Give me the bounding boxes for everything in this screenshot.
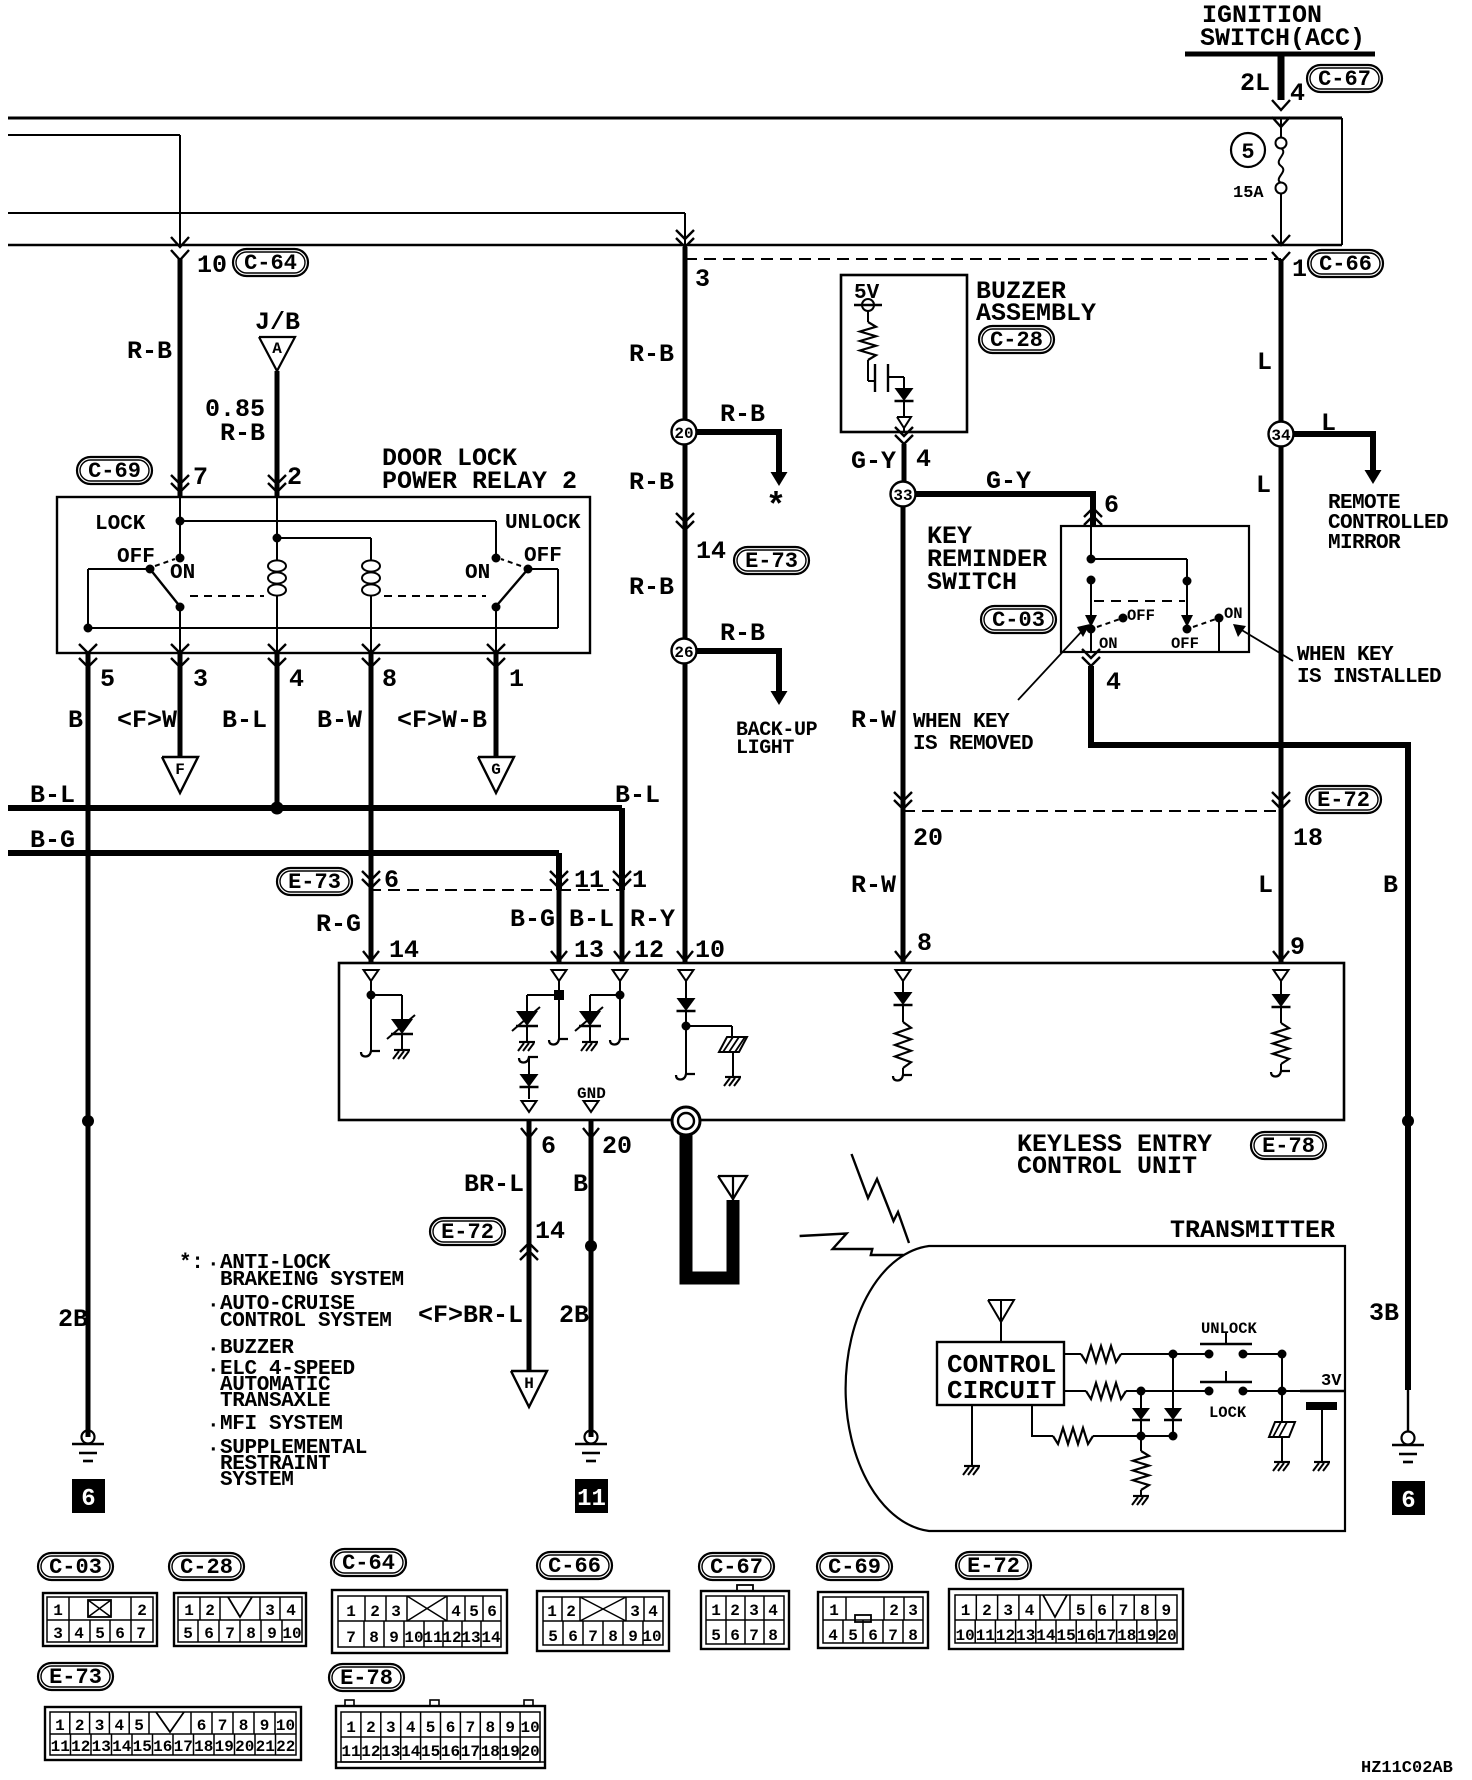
svg-text:4: 4 (286, 1602, 296, 1620)
svg-text:·: · (207, 1439, 219, 1462)
svg-text:1: 1 (346, 1719, 356, 1737)
buzzer 5V supply (854, 282, 882, 322)
connector E-72 capsule (right) (1306, 786, 1381, 813)
harness dashed line E-72 (903, 810, 1281, 812)
svg-text:B-L: B-L (615, 781, 660, 810)
svg-text:CONTROL UNIT: CONTROL UNIT (1017, 1152, 1197, 1181)
svg-text:7: 7 (466, 1719, 476, 1737)
TRANSMITTER label (1170, 1216, 1335, 1245)
svg-text:8: 8 (768, 1627, 778, 1645)
svg-text:33: 33 (893, 487, 912, 505)
wire R-W node 33 to E-72 pin 20 (851, 506, 903, 811)
J/B triangle A (255, 308, 300, 371)
svg-text:L: L (1258, 871, 1273, 900)
svg-text:L: L (1256, 471, 1271, 500)
drawing number HZ11C02AB (1361, 1759, 1453, 1778)
svg-text:5: 5 (1241, 140, 1254, 165)
connector C-67 capsule (1307, 65, 1382, 92)
svg-text:E-72: E-72 (1317, 788, 1370, 813)
svg-text:ON: ON (1099, 635, 1118, 653)
junction node 26 (672, 639, 697, 664)
svg-text:1: 1 (1292, 255, 1307, 284)
E-72 pin 18 arrow (1272, 792, 1323, 853)
svg-text:3: 3 (695, 265, 710, 294)
svg-text:OFF: OFF (1127, 607, 1155, 625)
svg-text:2: 2 (566, 1603, 576, 1621)
wire B-G to control unit pin 13 (510, 890, 567, 963)
buzzer resistor (860, 322, 876, 360)
svg-text:IS REMOVED: IS REMOVED (913, 733, 1033, 756)
svg-text:9: 9 (1161, 1602, 1171, 1620)
svg-text:CONTROL SYSTEM: CONTROL SYSTEM (220, 1310, 392, 1333)
svg-text:14: 14 (389, 936, 419, 965)
svg-text:R-B: R-B (720, 400, 765, 429)
svg-text:5: 5 (548, 1628, 558, 1646)
svg-text:10: 10 (276, 1717, 295, 1735)
svg-text:15: 15 (1056, 1627, 1075, 1645)
svg-text:8: 8 (1140, 1602, 1150, 1620)
wire R-W to control unit pin 8 (851, 811, 911, 963)
svg-text:5: 5 (469, 1603, 479, 1621)
wire R-G to control unit pin 14 (316, 890, 379, 963)
svg-text:20: 20 (235, 1738, 254, 1756)
J/B junction block bus line (top) (8, 117, 1342, 120)
wire R-B from C-64 to relay pin 7 (127, 258, 189, 497)
buzzer assembly box (841, 275, 967, 432)
svg-text:6: 6 (81, 1486, 95, 1513)
svg-text:6: 6 (868, 1627, 878, 1645)
R-B label below E-73 (629, 468, 674, 602)
door lock power relay 2 title (382, 444, 577, 496)
antenna feed connector on control unit (672, 1107, 700, 1135)
svg-text:11: 11 (577, 1486, 606, 1513)
svg-text:F: F (175, 761, 185, 779)
svg-text:B: B (68, 706, 83, 735)
svg-text:4: 4 (648, 1603, 658, 1621)
svg-text:5: 5 (426, 1719, 436, 1737)
svg-text:IS INSTALLED: IS INSTALLED (1297, 666, 1441, 689)
svg-text:1: 1 (829, 1602, 839, 1620)
svg-text:12: 12 (71, 1738, 90, 1756)
ground G6 right (1392, 1432, 1424, 1463)
svg-text:3: 3 (95, 1717, 105, 1735)
connector C-66 pin 1 label (1292, 250, 1383, 284)
wire B from pin 20 (559, 1120, 597, 1437)
svg-text:18: 18 (1117, 1627, 1136, 1645)
svg-text:C-28: C-28 (180, 1555, 233, 1580)
svg-text:R-B: R-B (720, 619, 765, 648)
svg-text:1: 1 (632, 866, 647, 895)
ground triangle G (478, 757, 514, 793)
svg-text:9: 9 (505, 1719, 515, 1737)
E-73 pin 6 arrow (362, 866, 399, 895)
svg-text:22: 22 (276, 1738, 295, 1756)
svg-text:6: 6 (730, 1627, 740, 1645)
door lock power relay 2 box (57, 497, 590, 653)
svg-text:1: 1 (961, 1602, 971, 1620)
svg-text:*: * (766, 489, 786, 527)
svg-text:8: 8 (608, 1628, 618, 1646)
svg-text:E-78: E-78 (340, 1666, 393, 1691)
svg-text:2B: 2B (58, 1305, 88, 1334)
svg-text:14: 14 (112, 1738, 132, 1756)
svg-text:4: 4 (1290, 79, 1305, 108)
svg-text:R-B: R-B (629, 573, 674, 602)
svg-text:R-G: R-G (316, 910, 361, 939)
svg-text:H: H (524, 1375, 534, 1393)
connector C-67 pinout (699, 1553, 789, 1649)
svg-text:2: 2 (137, 1602, 147, 1620)
relay mechanical link dashed (unlock) (384, 595, 486, 597)
connector C-64 pinout (331, 1549, 507, 1653)
svg-text:B-L: B-L (569, 905, 614, 934)
svg-text:R-B: R-B (220, 419, 265, 448)
svg-text:3V: 3V (1321, 1372, 1342, 1391)
svg-text:OFF: OFF (1171, 635, 1199, 653)
svg-text:·: · (207, 1339, 219, 1362)
svg-text:12: 12 (442, 1629, 461, 1647)
control unit pin 14 internal zener circuit (361, 970, 415, 1059)
relay internal wire pin7 to contacts (176, 497, 497, 558)
svg-text:10: 10 (520, 1719, 539, 1737)
svg-text:14: 14 (481, 1629, 501, 1647)
ground marker 6 left (72, 1479, 105, 1513)
bus wire B-L (8, 781, 660, 890)
arrows out of junction block to C-66 (1272, 235, 1290, 262)
svg-text:1: 1 (711, 1602, 721, 1620)
svg-text:4: 4 (828, 1627, 838, 1645)
svg-text:8: 8 (485, 1719, 495, 1737)
svg-text:2: 2 (205, 1602, 215, 1620)
svg-text:SWITCH: SWITCH (927, 568, 1017, 597)
svg-text:1: 1 (184, 1602, 194, 1620)
fuse rating 15A label (1233, 184, 1264, 203)
fuse number circle 5 (1231, 133, 1265, 167)
svg-text:12: 12 (361, 1743, 380, 1761)
svg-text:<F>W: <F>W (117, 706, 177, 735)
svg-text:21: 21 (256, 1738, 275, 1756)
svg-text:7: 7 (346, 1629, 356, 1647)
svg-text:10: 10 (282, 1625, 301, 1643)
battery 3V (1300, 1372, 1344, 1471)
control unit pin 12 label (634, 936, 664, 965)
key reminder switch internals (1085, 526, 1243, 653)
junction node 34 (1269, 422, 1294, 447)
svg-text:20: 20 (674, 425, 693, 443)
svg-text:R-B: R-B (127, 337, 172, 366)
svg-text:17: 17 (461, 1743, 480, 1761)
svg-text:C-69: C-69 (828, 1555, 881, 1580)
svg-text:19: 19 (501, 1743, 520, 1761)
svg-text:G-Y: G-Y (851, 447, 896, 476)
svg-text:17: 17 (1097, 1627, 1116, 1645)
svg-text:18: 18 (1293, 824, 1323, 853)
svg-text:4: 4 (74, 1625, 84, 1643)
relay pin 7 and 2 numbers (193, 463, 302, 492)
svg-text:SYSTEM: SYSTEM (220, 1469, 294, 1492)
control unit pin 10 label (695, 936, 725, 965)
svg-text:2: 2 (889, 1602, 899, 1620)
svg-text:8: 8 (369, 1629, 379, 1647)
control unit pin 6 arrow and label (521, 1128, 556, 1161)
svg-text:9: 9 (1290, 933, 1305, 962)
svg-text:11: 11 (574, 866, 604, 895)
BACK-UP LIGHT label (736, 719, 818, 760)
svg-text:17: 17 (174, 1738, 193, 1756)
svg-text:CIRCUIT: CIRCUIT (947, 1376, 1056, 1406)
svg-text:6: 6 (1401, 1488, 1415, 1515)
WHEN KEY IS INSTALLED note (1233, 624, 1441, 689)
control unit pin 20 arrow and label (583, 1128, 632, 1161)
svg-text:·: · (207, 1415, 219, 1438)
svg-text:6: 6 (115, 1625, 125, 1643)
svg-text:16: 16 (441, 1743, 460, 1761)
<F>BR-L label (418, 1301, 523, 1330)
svg-text:UNLOCK: UNLOCK (1201, 1320, 1258, 1338)
fuse 5 (15A) (1276, 118, 1287, 245)
svg-text:WHEN KEY: WHEN KEY (913, 711, 1010, 734)
svg-text:J/B: J/B (255, 308, 300, 337)
svg-text:1: 1 (547, 1603, 557, 1621)
key reminder switch box (1061, 526, 1249, 652)
svg-text:26: 26 (674, 644, 693, 662)
svg-text:3: 3 (1003, 1602, 1013, 1620)
svg-text:4: 4 (114, 1717, 124, 1735)
connector C-69 pinout (817, 1553, 928, 1648)
svg-text:2: 2 (982, 1602, 992, 1620)
svg-text:1: 1 (55, 1717, 65, 1735)
svg-text:ON: ON (170, 562, 195, 585)
svg-text:11: 11 (341, 1743, 360, 1761)
arrow into junction block at C-67 pin 4 (1272, 100, 1290, 127)
svg-text:5: 5 (848, 1627, 858, 1645)
svg-text:2: 2 (366, 1719, 376, 1737)
connector C-64 pin 10 label (197, 249, 308, 280)
keyless entry control unit box (339, 963, 1344, 1120)
svg-text:BRAKEING SYSTEM: BRAKEING SYSTEM (220, 1269, 404, 1292)
connector C-28 capsule (979, 326, 1054, 353)
control unit pin 9 internal circuit (1271, 970, 1291, 1077)
svg-text:6: 6 (1104, 491, 1119, 520)
J/B junction block bus line (bottom) (8, 244, 1342, 246)
svg-text:TRANSMITTER: TRANSMITTER (1170, 1216, 1335, 1245)
branch wire R-B to back-up light (696, 619, 788, 705)
E-73 pin 11 arrow (550, 866, 604, 895)
ground G11 (575, 1431, 607, 1462)
connector E-78 capsule (1251, 1132, 1326, 1159)
svg-text:11: 11 (423, 1629, 442, 1647)
svg-text:MIRROR: MIRROR (1328, 532, 1401, 555)
relay coil 2 (unlock) (362, 560, 380, 653)
svg-text:14: 14 (1036, 1627, 1056, 1645)
svg-text:4: 4 (406, 1719, 416, 1737)
wire R-B main (C-64 pin 3 branch) (629, 230, 710, 963)
wire 2L from ignition switch (1240, 56, 1305, 108)
svg-text:8: 8 (382, 665, 397, 694)
svg-text:B: B (573, 1170, 588, 1199)
control unit pin 13 internal circuit (512, 970, 568, 1051)
transmitter resistor 1 (1064, 1346, 1209, 1362)
relay pin numbers (100, 665, 524, 694)
svg-text:9: 9 (267, 1625, 277, 1643)
note list for asterisk (179, 1252, 404, 1492)
svg-text:15: 15 (133, 1738, 152, 1756)
svg-text:7: 7 (588, 1628, 598, 1646)
svg-text:7: 7 (1119, 1602, 1129, 1620)
ground G6 left (72, 1431, 104, 1462)
E-72 pin 14 arrows on BR-L (520, 1243, 538, 1260)
wire G-Y to key reminder switch (915, 467, 1119, 526)
svg-text:R-B: R-B (629, 340, 674, 369)
svg-text:3: 3 (908, 1602, 918, 1620)
relay pin arrows at bottom (79, 644, 505, 667)
wire 0.85 R-B from J/B A to relay pin 2 (205, 371, 286, 497)
transmitter resistor 4 to ground (1132, 1436, 1149, 1505)
svg-text:·: · (207, 1295, 219, 1318)
svg-text:1: 1 (509, 665, 524, 694)
svg-text:6: 6 (541, 1132, 556, 1161)
svg-text:3: 3 (749, 1602, 759, 1620)
svg-text:8: 8 (246, 1625, 256, 1643)
svg-text:ON: ON (1224, 605, 1243, 623)
connector E-73 capsule (mid) (734, 547, 809, 574)
connector E-73 capsule (left) (277, 868, 352, 895)
svg-text:13: 13 (461, 1629, 480, 1647)
wire <F>W-B from relay pin 1 to ground G (397, 653, 496, 757)
svg-text:7: 7 (888, 1627, 898, 1645)
wire from junction block to C-64 (horizontal feed) (8, 135, 180, 245)
svg-text:BUZZER: BUZZER (220, 1337, 294, 1360)
relay UNLOCK label (505, 512, 581, 535)
svg-text:5: 5 (711, 1627, 721, 1645)
connector C-28 pinout (169, 1553, 306, 1646)
svg-text:13: 13 (574, 936, 604, 965)
svg-text:2: 2 (287, 463, 302, 492)
ground triangle H (511, 1371, 547, 1407)
transmitter crystal (1269, 1422, 1295, 1471)
control unit pin 10 internal circuit (676, 970, 747, 1086)
antenna wire loop (686, 1134, 733, 1278)
svg-text:6: 6 (487, 1603, 497, 1621)
svg-text:E-72: E-72 (967, 1554, 1020, 1579)
svg-text:E-72: E-72 (441, 1220, 494, 1245)
arrows into C-64 pin 10 (171, 237, 189, 260)
svg-text:2L: 2L (1240, 69, 1270, 98)
svg-text:14: 14 (696, 537, 726, 566)
IGNITION SWITCH(ACC) label (1185, 1, 1375, 54)
svg-text:11: 11 (976, 1627, 995, 1645)
relay switch common rail (84, 569, 559, 633)
svg-text:34: 34 (1271, 427, 1291, 445)
svg-text:ON: ON (465, 562, 490, 585)
svg-text:14: 14 (535, 1217, 565, 1246)
svg-text:20: 20 (602, 1132, 632, 1161)
svg-text:4: 4 (1106, 668, 1121, 697)
svg-text:HZ11C02AB: HZ11C02AB (1361, 1759, 1453, 1778)
svg-text:R-W: R-W (851, 871, 896, 900)
svg-text:18: 18 (481, 1743, 500, 1761)
svg-text:C-03: C-03 (49, 1555, 102, 1580)
svg-text:5: 5 (183, 1625, 193, 1643)
connector E-78 pinout (329, 1664, 545, 1768)
ground triangle F (162, 757, 198, 793)
connector C-03 pinout (38, 1553, 157, 1646)
svg-text:6: 6 (384, 866, 399, 895)
svg-text:12: 12 (634, 936, 664, 965)
relay mechanical link dashed (lock) (190, 595, 264, 597)
svg-text:E-73: E-73 (288, 870, 341, 895)
svg-text:4: 4 (916, 445, 931, 474)
bus wire to R-B feed (8, 213, 685, 245)
UNLOCK switch (1200, 1320, 1258, 1359)
svg-text:2: 2 (370, 1603, 380, 1621)
harness dashed line at C-66 (685, 258, 1281, 260)
E-73 pin 14 pass-through on R-B (676, 513, 726, 566)
svg-text:4: 4 (1025, 1602, 1035, 1620)
control unit pin 8 label (917, 929, 932, 958)
svg-text:7: 7 (193, 463, 208, 492)
connector E-73 pinout (38, 1663, 301, 1760)
svg-text:SWITCH(ACC): SWITCH(ACC) (1200, 24, 1365, 53)
radio wave bolt 2 (800, 1234, 904, 1256)
E-73 pin 1 arrow (613, 866, 647, 895)
junction node 20 (672, 420, 697, 445)
E-72 pin 20 arrow (894, 792, 943, 853)
J/B junction block right edge (1341, 118, 1343, 245)
control unit pin 6 internal diode to BR-L (519, 1057, 539, 1112)
svg-text:C-67: C-67 (710, 1555, 763, 1580)
branch wire L to remote controlled mirror (1293, 409, 1382, 484)
svg-text:10: 10 (197, 251, 227, 280)
svg-text:3: 3 (53, 1625, 63, 1643)
wire B from relay pin 5 (58, 653, 94, 1437)
svg-text:13: 13 (381, 1743, 400, 1761)
relay internal wire pin2 to coils (273, 497, 372, 560)
wire R-Y to control unit pin 12 (569, 890, 675, 963)
svg-text:6: 6 (568, 1628, 578, 1646)
svg-text:20: 20 (520, 1743, 539, 1761)
transmitter resistor 2 (1064, 1383, 1209, 1399)
relay lock switch (117, 546, 195, 653)
svg-text:3: 3 (193, 665, 208, 694)
svg-text:B-W: B-W (317, 706, 362, 735)
svg-text:3: 3 (265, 1602, 275, 1620)
svg-text:1: 1 (346, 1603, 356, 1621)
svg-text:C-28: C-28 (990, 328, 1043, 353)
connector C-66 pinout (537, 1552, 669, 1651)
svg-text:4: 4 (289, 665, 304, 694)
svg-text:C-66: C-66 (548, 1554, 601, 1579)
svg-text:B: B (1383, 871, 1398, 900)
svg-text:E-73: E-73 (49, 1665, 102, 1690)
svg-text:15: 15 (421, 1743, 440, 1761)
control unit pin 12 internal circuit (575, 970, 629, 1051)
svg-text:20: 20 (1157, 1627, 1176, 1645)
svg-text:C-03: C-03 (992, 608, 1045, 633)
antenna symbol of control unit (718, 1176, 747, 1205)
REMOTE CONTROLLED MIRROR label (1328, 492, 1448, 555)
transmitter resistor 3 (1032, 1405, 1178, 1444)
relay coil 1 (lock) (268, 560, 286, 653)
svg-text:R-Y: R-Y (630, 905, 675, 934)
svg-text:10: 10 (695, 936, 725, 965)
svg-text:MFI SYSTEM: MFI SYSTEM (220, 1413, 343, 1436)
wire G-Y buzzer to node 33 (902, 444, 907, 482)
wire BR-L from pin 6 (464, 1120, 529, 1371)
svg-text:5: 5 (1076, 1602, 1086, 1620)
svg-text:BR-L: BR-L (464, 1170, 524, 1199)
svg-text:9: 9 (260, 1717, 270, 1735)
